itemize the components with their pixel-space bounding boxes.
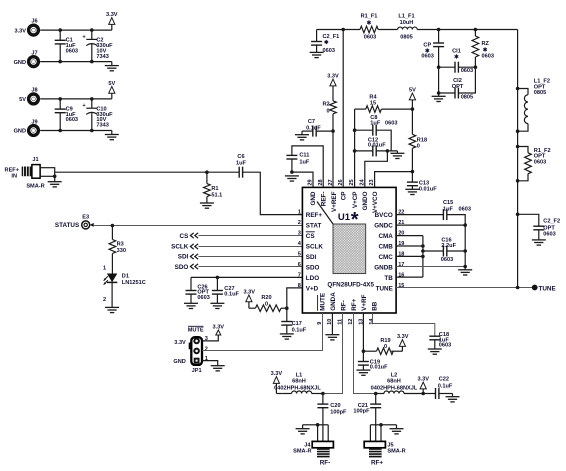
svg-text:0603: 0603	[441, 257, 453, 263]
pin 1 REF+	[298, 210, 323, 220]
svg-text:C2_F2: C2_F2	[543, 219, 560, 225]
svg-text:CS: CS	[306, 233, 315, 240]
svg-text:0402HPH-68NXJL: 0402HPH-68NXJL	[371, 385, 418, 391]
capacitor CP	[421, 30, 444, 94]
node SDI signal	[178, 254, 303, 261]
inductor L2	[371, 373, 425, 396]
wire J6 rail	[40, 28, 112, 32]
svg-text:0.01uF: 0.01uF	[368, 143, 386, 149]
svg-text:MUTE: MUTE	[188, 328, 204, 334]
ground	[458, 270, 472, 275]
svg-text:GND: GND	[173, 359, 185, 365]
banana jack J8	[19, 88, 38, 104]
capacitor C6	[236, 154, 247, 178]
svg-text:CI2: CI2	[453, 78, 462, 84]
svg-text:RF-: RF-	[320, 459, 331, 466]
capacitor C17	[281, 308, 306, 334]
pin 21 GNDC	[374, 220, 404, 230]
pin 22 BVCO	[375, 210, 405, 220]
pin 23 V+VCO	[369, 179, 379, 213]
capacitor C13	[407, 172, 437, 193]
capacitor C2_F2	[518, 214, 560, 240]
wire MUTE net	[202, 313, 323, 351]
pin 20 CMA	[378, 231, 404, 241]
svg-text:100pF: 100pF	[330, 409, 347, 415]
svg-text:GND: GND	[310, 191, 317, 205]
svg-text:0603: 0603	[66, 48, 78, 54]
svg-text:CI1: CI1	[452, 48, 461, 54]
ground	[105, 307, 119, 312]
wire GNDA	[325, 313, 339, 340]
svg-text:REF+: REF+	[5, 167, 20, 173]
svg-text:R1: R1	[211, 186, 218, 192]
svg-text:SCLK: SCLK	[171, 243, 189, 250]
svg-text:0603: 0603	[421, 54, 433, 60]
svg-text:0603: 0603	[534, 160, 546, 166]
svg-text:IN: IN	[11, 174, 17, 180]
pin 24 GNDO	[359, 178, 369, 210]
pin 2 STAT	[298, 220, 322, 230]
wire GNDO hook	[365, 151, 388, 188]
svg-text:0.01uF: 0.01uF	[419, 187, 437, 193]
svg-text:TUNE: TUNE	[376, 285, 393, 292]
svg-text:R20: R20	[261, 295, 271, 301]
wire REF+ line	[55, 170, 303, 214]
capacitor C20	[317, 394, 347, 425]
svg-text:2: 2	[103, 297, 106, 303]
wire STAT net	[94, 224, 303, 228]
svg-text:68nH: 68nH	[292, 379, 306, 385]
svg-text:0603: 0603	[461, 68, 473, 74]
svg-text:R1_F1: R1_F1	[361, 14, 378, 20]
svg-text:C15: C15	[443, 200, 453, 206]
op-amp U1 QFN28 body	[302, 187, 396, 313]
svg-text:6: 6	[298, 262, 301, 268]
svg-text:QFN28UFD-4X5: QFN28UFD-4X5	[327, 281, 374, 288]
pin 5 SDI	[298, 251, 317, 261]
wire JP1 pin1 gnd	[202, 361, 225, 371]
svg-text:0.1uF: 0.1uF	[438, 384, 453, 390]
capacitor C9	[55, 99, 78, 131]
svg-text:5: 5	[298, 251, 301, 257]
svg-text:7343: 7343	[96, 123, 108, 129]
svg-text:RF+: RF+	[351, 298, 358, 310]
svg-text:✱: ✱	[483, 47, 488, 54]
svg-text:0805: 0805	[534, 90, 546, 96]
svg-text:0.01uF: 0.01uF	[370, 365, 388, 371]
wire V+REF	[331, 129, 335, 187]
svg-text:3.3V: 3.3V	[174, 340, 186, 346]
svg-text:0603: 0603	[482, 54, 494, 60]
svg-text:100pF: 100pF	[353, 408, 370, 414]
3.3V supply	[397, 334, 409, 351]
pin 19 CMB	[378, 241, 404, 251]
wire RF- branch	[321, 313, 342, 395]
ground	[405, 189, 419, 194]
svg-text:CMC: CMC	[378, 254, 393, 261]
ground	[105, 62, 119, 71]
svg-text:TUNE: TUNE	[539, 286, 556, 293]
resistor R2	[322, 85, 336, 131]
capacitor C19	[358, 351, 388, 371]
svg-text:CS: CS	[180, 233, 189, 240]
wire V+RF	[362, 313, 366, 353]
wire LDO net	[191, 276, 302, 280]
ground	[390, 151, 404, 159]
connector J4 SMA-R	[293, 423, 333, 466]
svg-text:1uF: 1uF	[443, 206, 454, 212]
pin 27 V+REF	[328, 179, 338, 212]
banana jack J7	[14, 50, 39, 66]
resistor R18	[409, 109, 427, 172]
svg-text:R3: R3	[117, 242, 124, 248]
svg-text:CMA: CMA	[378, 233, 393, 240]
header JP1 MUTE	[173, 326, 208, 374]
3.3V supply	[271, 371, 283, 393]
ground	[296, 425, 318, 434]
svg-text:SMA-R: SMA-R	[387, 448, 405, 454]
pin 10 GNDA	[327, 292, 337, 325]
svg-text:330: 330	[117, 248, 126, 254]
resistor R1_F1	[360, 14, 378, 41]
svg-text:SDO: SDO	[306, 264, 320, 271]
svg-text:OPT: OPT	[452, 84, 464, 90]
svg-text:STATUS: STATUS	[55, 222, 79, 229]
pin 11 RF-	[338, 300, 348, 325]
svg-text:REF+: REF+	[306, 212, 323, 219]
inductor L1_F2	[518, 79, 550, 132]
svg-text:SDI: SDI	[178, 254, 189, 261]
capacitor C18	[429, 332, 451, 349]
svg-text:CP: CP	[341, 192, 348, 201]
pin 8 V+D	[298, 283, 319, 293]
capacitor C27	[212, 277, 240, 303]
resistor R20	[249, 288, 303, 312]
svg-text:15: 15	[370, 100, 376, 106]
svg-text:V+VCO: V+VCO	[372, 191, 379, 213]
LED D1	[103, 265, 146, 307]
pin 13 V+RF	[358, 294, 368, 324]
wire V+CP branch	[353, 109, 357, 187]
3.3V supply	[417, 377, 429, 394]
svg-text:GND: GND	[14, 129, 26, 135]
svg-text:D1: D1	[122, 274, 129, 280]
3.3V supply	[106, 12, 118, 30]
ground	[280, 334, 294, 339]
wire RF+ branch	[354, 313, 378, 395]
pin 17 GNDB	[374, 262, 404, 272]
capacitor C7	[302, 119, 333, 136]
svg-text:+: +	[82, 34, 86, 40]
ground	[200, 203, 214, 208]
svg-text:1: 1	[298, 210, 301, 216]
svg-text:0603: 0603	[66, 117, 78, 123]
pin 15 TUNE	[376, 283, 405, 293]
svg-text:L1_F1: L1_F1	[398, 14, 414, 20]
wire BB net	[373, 313, 435, 336]
capacitor C2 polarized	[82, 30, 113, 61]
svg-text:C13: C13	[419, 180, 429, 186]
svg-text:3.3V: 3.3V	[397, 334, 409, 340]
wire rail to right	[417, 28, 517, 32]
svg-text:2: 2	[298, 220, 301, 226]
5V supply	[108, 81, 115, 99]
capacitor C22	[423, 377, 453, 399]
svg-text:C7: C7	[308, 119, 315, 125]
svg-text:SMA-R: SMA-R	[293, 448, 311, 454]
svg-text:GNDC: GNDC	[374, 223, 393, 230]
node GND pin29	[285, 170, 313, 187]
svg-text:LN1251C: LN1251C	[122, 280, 146, 286]
pin 4 SCLK	[298, 241, 324, 251]
capacitor C16	[423, 238, 467, 263]
svg-text:SMA-R: SMA-R	[26, 183, 44, 189]
svg-text:CP: CP	[423, 42, 431, 48]
svg-text:0603: 0603	[364, 34, 376, 40]
svg-text:SDI: SDI	[306, 254, 317, 261]
connector J1 SMA-R REF+ IN	[5, 157, 62, 189]
3.3V supply	[327, 74, 339, 86]
svg-text:5V: 5V	[19, 97, 26, 103]
svg-text:SDO: SDO	[175, 264, 189, 271]
svg-text:0603: 0603	[459, 206, 471, 212]
svg-text:0: 0	[326, 108, 329, 114]
svg-text:R2: R2	[322, 101, 329, 107]
ground	[381, 425, 404, 434]
svg-text:STAT: STAT	[306, 223, 322, 230]
node SCLK signal	[171, 243, 302, 250]
svg-text:GNDB: GNDB	[374, 264, 393, 271]
svg-text:9: 9	[317, 322, 323, 325]
ground	[532, 240, 546, 245]
svg-text:E3: E3	[82, 214, 89, 220]
capacitor Ct2	[437, 67, 476, 100]
ground	[295, 131, 309, 140]
capacitor C15	[396, 200, 471, 225]
3.3V supply	[202, 324, 224, 341]
svg-text:0.1uF: 0.1uF	[292, 328, 307, 334]
pin 12 RF+	[348, 298, 358, 324]
svg-text:BB: BB	[372, 301, 379, 311]
svg-text:1: 1	[103, 265, 106, 271]
svg-text:3: 3	[298, 231, 301, 237]
ground	[446, 394, 460, 402]
svg-text:2: 2	[205, 346, 208, 352]
pin 26 CP	[338, 179, 348, 200]
wire	[378, 29, 397, 31]
pin 28 REF-	[318, 179, 328, 206]
pin 14 BB	[369, 301, 379, 325]
svg-text:3.3V: 3.3V	[14, 28, 26, 34]
svg-text:2.2uF: 2.2uF	[441, 243, 456, 249]
svg-text:GND: GND	[14, 60, 26, 66]
ground	[428, 349, 442, 354]
svg-text:V+REF: V+REF	[331, 191, 338, 212]
ground	[432, 93, 446, 102]
svg-text:RF+: RF+	[371, 459, 383, 466]
capacitor C26	[186, 277, 210, 303]
pin 25 V+CP	[349, 179, 359, 208]
wire J7 gnd rail	[40, 60, 112, 64]
svg-text:C20: C20	[330, 403, 340, 409]
svg-text:0805: 0805	[400, 34, 412, 40]
svg-text:RZ: RZ	[482, 41, 490, 47]
svg-text:V+CP: V+CP	[352, 192, 359, 209]
banana jack J9	[14, 119, 39, 135]
svg-text:51.1: 51.1	[211, 193, 222, 199]
connector J5 SMA-R	[364, 423, 406, 466]
capacitor C2_F1	[311, 30, 339, 54]
svg-text:0: 0	[265, 301, 268, 307]
5V supply	[409, 88, 416, 109]
svg-text:1uF: 1uF	[370, 121, 381, 127]
resistor R19	[363, 338, 402, 355]
capacitor C11	[286, 146, 323, 188]
banana jack J6	[14, 19, 38, 35]
pin 6 SDO	[298, 262, 320, 272]
svg-text:TB: TB	[384, 275, 393, 282]
pin 16 TB	[384, 272, 404, 282]
svg-text:0805: 0805	[461, 95, 473, 101]
svg-text:0.1uF: 0.1uF	[224, 291, 239, 297]
pin 18 CMC	[378, 251, 404, 261]
svg-text:0603: 0603	[439, 343, 451, 349]
svg-text:0603: 0603	[323, 48, 335, 54]
svg-text:+: +	[82, 103, 86, 109]
svg-text:✱: ✱	[367, 20, 372, 27]
node SDO signal	[175, 264, 303, 271]
svg-text:0603: 0603	[385, 121, 397, 127]
svg-text:U1: U1	[338, 212, 351, 223]
ground	[356, 370, 370, 375]
svg-text:GNDA: GNDA	[330, 292, 337, 311]
ground	[210, 303, 224, 308]
svg-text:0603: 0603	[543, 231, 555, 237]
wire J8 rail	[40, 97, 112, 101]
capacitor C12	[355, 137, 398, 156]
resistor R1	[204, 172, 223, 203]
resistor RZ	[472, 30, 494, 68]
svg-text:7: 7	[298, 272, 301, 278]
svg-text:CMB: CMB	[378, 244, 393, 251]
svg-text:C11: C11	[299, 153, 309, 159]
svg-text:V+RF: V+RF	[361, 294, 368, 310]
resistor R3	[109, 226, 126, 274]
svg-text:1uF: 1uF	[236, 161, 247, 167]
capacitor C8	[355, 115, 398, 151]
svg-text:68nH: 68nH	[387, 379, 401, 385]
svg-text:1uF: 1uF	[299, 160, 310, 166]
svg-text:0.1uF: 0.1uF	[306, 126, 321, 132]
pin 7 LDO	[298, 272, 319, 282]
wire GNDB	[396, 265, 467, 269]
wire V+VCO hook	[375, 170, 415, 188]
svg-text:LDO: LDO	[306, 275, 319, 282]
svg-text:✱: ✱	[324, 39, 329, 46]
svg-text:J1: J1	[32, 157, 38, 163]
ground	[184, 303, 198, 308]
capacitor C1	[55, 30, 78, 61]
svg-text:✱: ✱	[454, 54, 459, 61]
svg-text:0: 0	[384, 344, 387, 350]
pin 3 CS	[298, 231, 315, 241]
svg-text:3.3V: 3.3V	[243, 290, 255, 296]
capacitor Ct1	[439, 48, 478, 74]
svg-text:GNDO: GNDO	[362, 191, 369, 210]
wire right rail	[516, 30, 520, 288]
svg-text:C17: C17	[292, 321, 302, 327]
svg-text:C2_F1: C2_F1	[323, 34, 340, 40]
pin 9 MUTE	[317, 293, 327, 325]
ground	[310, 52, 324, 57]
wire TUNE net	[396, 286, 535, 290]
capacitor C10 polarized	[82, 99, 113, 131]
inductor L1_F1	[398, 14, 418, 41]
inductor L1	[274, 373, 323, 394]
testpoint E3 STATUS	[55, 214, 94, 229]
ground	[105, 131, 119, 140]
svg-text:7343: 7343	[96, 54, 108, 60]
pin 29 GND	[307, 179, 317, 205]
svg-text:RF-: RF-	[340, 300, 347, 311]
wire GNDC	[396, 223, 467, 269]
svg-text:R18: R18	[417, 137, 427, 143]
svg-text:0: 0	[417, 144, 420, 150]
svg-text:0402HPH-68NXJL: 0402HPH-68NXJL	[274, 385, 321, 391]
svg-text:MUTE: MUTE	[320, 293, 327, 311]
svg-text:C22: C22	[439, 377, 449, 383]
node CS signal	[180, 233, 303, 240]
wire CM bus	[396, 236, 425, 278]
resistor R1_F2	[518, 147, 551, 181]
svg-text:SCLK: SCLK	[306, 244, 324, 251]
svg-text:10uH: 10uH	[400, 20, 414, 26]
node TUNE	[532, 285, 556, 293]
capacitor C21	[353, 394, 381, 425]
resistor R4	[355, 94, 415, 112]
3.3V supply	[243, 290, 255, 309]
svg-text:JP1: JP1	[192, 368, 202, 374]
svg-text:V+D: V+D	[306, 285, 319, 292]
wire J9 gnd rail	[40, 129, 112, 133]
svg-text:C6: C6	[237, 154, 244, 160]
svg-text:0603: 0603	[197, 295, 209, 301]
svg-text:REF-: REF-	[321, 192, 328, 207]
wire CP rail	[317, 28, 360, 188]
